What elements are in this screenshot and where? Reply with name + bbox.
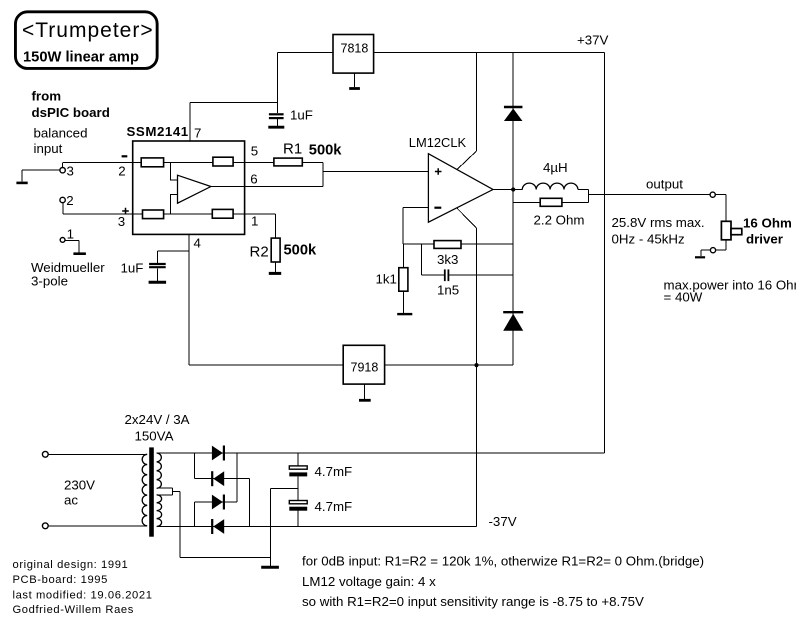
svg-text:1uF: 1uF bbox=[121, 261, 144, 276]
svg-text:4.7mF: 4.7mF bbox=[315, 499, 353, 514]
svg-text:3-pole: 3-pole bbox=[31, 274, 68, 289]
svg-text:16 Ohm: 16 Ohm bbox=[743, 216, 792, 231]
svg-text:last modified: 19.06.2021: last modified: 19.06.2021 bbox=[13, 589, 153, 601]
svg-text:4µH: 4µH bbox=[543, 160, 568, 175]
svg-text:output: output bbox=[646, 177, 683, 192]
svg-text:7918: 7918 bbox=[351, 361, 379, 375]
svg-text:2: 2 bbox=[66, 193, 73, 208]
svg-text:Godfried-Willem Raes: Godfried-Willem Raes bbox=[13, 604, 134, 616]
svg-text:7: 7 bbox=[194, 126, 201, 141]
svg-text:500k: 500k bbox=[284, 243, 318, 259]
svg-text:7818: 7818 bbox=[341, 41, 369, 55]
svg-text:PCB-board: 1995: PCB-board: 1995 bbox=[13, 574, 108, 586]
svg-text:dsPIC board: dsPIC board bbox=[32, 105, 110, 120]
svg-text:500k: 500k bbox=[309, 143, 343, 159]
svg-text:from: from bbox=[32, 89, 62, 104]
svg-text:3: 3 bbox=[67, 164, 74, 179]
svg-text:LM12CLK: LM12CLK bbox=[409, 135, 467, 150]
svg-text:1k1: 1k1 bbox=[376, 272, 397, 287]
svg-text:2x24V / 3A: 2x24V / 3A bbox=[125, 412, 190, 427]
svg-text:1: 1 bbox=[67, 227, 74, 242]
svg-text:150W linear amp: 150W linear amp bbox=[23, 49, 139, 65]
svg-text:+37V: +37V bbox=[577, 33, 609, 48]
svg-text:6: 6 bbox=[250, 172, 257, 187]
svg-text:3k3: 3k3 bbox=[437, 252, 458, 267]
svg-text:-37V: -37V bbox=[489, 514, 517, 529]
svg-text:4: 4 bbox=[194, 236, 201, 251]
svg-text:2.2 Ohm: 2.2 Ohm bbox=[534, 213, 585, 228]
svg-text:5: 5 bbox=[251, 144, 258, 159]
svg-text:4.7mF: 4.7mF bbox=[315, 464, 353, 479]
svg-text:= 40W: = 40W bbox=[664, 290, 703, 305]
svg-text:230V: 230V bbox=[64, 478, 95, 493]
svg-text:original design: 1991: original design: 1991 bbox=[13, 559, 129, 571]
svg-text:<Trumpeter>: <Trumpeter> bbox=[22, 19, 154, 42]
svg-text:1: 1 bbox=[251, 214, 258, 229]
svg-text:R2: R2 bbox=[250, 244, 269, 261]
svg-text:2: 2 bbox=[118, 164, 125, 179]
svg-text:R1: R1 bbox=[283, 141, 302, 158]
svg-text:driver: driver bbox=[746, 232, 783, 247]
svg-text:25.8V rms max.: 25.8V rms max. bbox=[612, 215, 705, 230]
svg-text:1uF: 1uF bbox=[290, 108, 313, 123]
svg-text:0Hz - 45kHz: 0Hz - 45kHz bbox=[612, 232, 685, 247]
svg-text:150VA: 150VA bbox=[135, 429, 174, 444]
svg-text:3: 3 bbox=[118, 214, 125, 229]
svg-text:SSM2141: SSM2141 bbox=[127, 124, 189, 139]
svg-text:input: input bbox=[34, 141, 63, 156]
svg-text:so with R1=R2=0 input sensitiv: so with R1=R2=0 input sensitivity range … bbox=[302, 594, 644, 609]
svg-text:for 0dB input: R1=R2 = 120k 1%: for 0dB input: R1=R2 = 120k 1%, otherwiz… bbox=[302, 554, 704, 569]
svg-text:1n5: 1n5 bbox=[437, 283, 459, 298]
svg-text:ac: ac bbox=[64, 493, 78, 508]
svg-text:LM12 voltage gain: 4 x: LM12 voltage gain: 4 x bbox=[302, 574, 436, 589]
svg-text:balanced: balanced bbox=[34, 126, 88, 141]
